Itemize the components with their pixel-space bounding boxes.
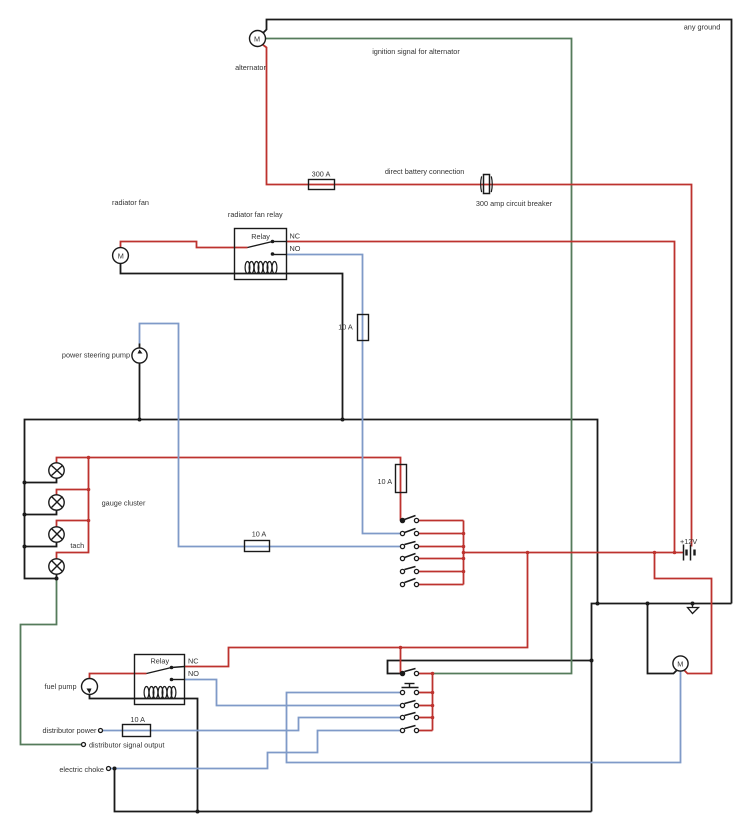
node: choke ground junction bbox=[113, 767, 117, 771]
svg-text:distributor power: distributor power bbox=[43, 726, 98, 735]
node: battery loop junction bbox=[653, 551, 657, 555]
node: tach lamp signal junction bbox=[55, 577, 59, 581]
node: ground trunk junction top bbox=[596, 602, 600, 606]
wire: fuel pump motor tail to prime push switch row 2 (blue) bbox=[287, 672, 681, 763]
node: lamp2 ground junction bbox=[23, 513, 27, 517]
wire: power steering pump return drop bbox=[139, 364, 141, 420]
node: lamp1 ground junction bbox=[23, 481, 27, 485]
node: relay1 coil return junction bbox=[341, 418, 345, 422]
svg-text:tach: tach bbox=[70, 541, 84, 550]
switch S1 bank1 row1 bbox=[400, 516, 418, 523]
wire: radiator fan motor return to relay coil and down to ground bus bbox=[121, 264, 343, 420]
svg-text:NC: NC bbox=[290, 232, 301, 241]
wire: tach signal (green) to distributor signal output terminal bbox=[21, 579, 82, 745]
svg-text:power steering pump: power steering pump bbox=[62, 351, 130, 360]
fuse F2 10 A (relay1 NO line) bbox=[358, 315, 369, 341]
wire: electric choke to lower bank row 5 (blue) bbox=[111, 731, 401, 769]
lamp L4 tach bbox=[49, 559, 64, 574]
wire: fuel pump feed into relay 2 (red) bbox=[90, 674, 147, 679]
node: relay1 NC rail junction bbox=[673, 551, 677, 555]
lamp L2 gauge cluster bbox=[49, 495, 64, 510]
fuse F3 10 A (main red to bank 1) bbox=[396, 465, 407, 493]
wire: lower bank switched bus (red) bbox=[432, 674, 434, 731]
switch S9 bank2 row3 bbox=[400, 701, 418, 708]
wire: ground bus bottom run y=811.3 to electric choke ground bbox=[115, 769, 592, 812]
wire: gauge lamp 3 ground jog bbox=[25, 543, 57, 547]
svg-text:gauge cluster: gauge cluster bbox=[102, 499, 146, 508]
wire: power steering pump top lead stub bbox=[139, 344, 141, 349]
wire: battery loop to fuel pump motor (red) bbox=[655, 553, 712, 674]
wire: fuel pump return through relay coil down to ground bus bbox=[90, 695, 198, 812]
svg-text:radiator fan: radiator fan bbox=[112, 198, 149, 207]
node: gauge bus lamp3 junction bbox=[87, 519, 91, 523]
wire: relay 1 NO to bank 1 row 2 via 10A fuse (blue) bbox=[287, 255, 401, 534]
wire: switched +12V main run to battery (red) bbox=[464, 552, 684, 554]
wire: ignition feed black run to lower switch bank row 1 bbox=[388, 661, 592, 674]
svg-text:ignition signal for alternator: ignition signal for alternator bbox=[372, 47, 460, 56]
svg-text:M: M bbox=[677, 659, 683, 668]
svg-text:distributor signal output: distributor signal output bbox=[89, 741, 164, 750]
terminal: electric choke bbox=[107, 767, 111, 771]
wire: power steering pump feed via 10A fuse to bank 1 row 3 (blue) bbox=[140, 324, 401, 547]
node: bank2 row1 input junction bbox=[401, 672, 405, 676]
node: gauge bus top junction bbox=[87, 456, 91, 460]
wire: lower bank row stubs (red) bbox=[419, 673, 433, 675]
node: bank2 bus row2 junction bbox=[431, 691, 435, 695]
svg-text:NC: NC bbox=[188, 657, 199, 666]
node: relay2 NC drop junction bbox=[526, 551, 530, 555]
pump P1 power steering pump bbox=[132, 348, 147, 363]
ground symbol bbox=[688, 604, 699, 614]
svg-text:Relay: Relay bbox=[251, 232, 270, 241]
wire: fuel pump motor ground drop from bus bbox=[648, 604, 677, 674]
node: bank2 bus row4 junction bbox=[431, 716, 435, 720]
terminal: distributor power bbox=[99, 729, 103, 733]
svg-text:10 A: 10 A bbox=[377, 477, 392, 486]
node: ignition feed tap bbox=[590, 659, 594, 663]
wire: radiator fan motor feed into relay 1 (red) bbox=[121, 242, 248, 248]
motor M2 radiator fan bbox=[113, 248, 129, 264]
wire: lamp 3 feed stub (red) bbox=[57, 521, 89, 527]
svg-text:alternator: alternator bbox=[235, 63, 266, 72]
relay K2 coil bbox=[144, 687, 176, 699]
svg-text:fuel pump: fuel pump bbox=[44, 682, 76, 691]
push switch S8 bank2 row2 (fuel pump prime) bbox=[400, 684, 418, 695]
wire: drop to fuel pump relay NC (red) bbox=[185, 553, 528, 667]
node: bank2 bus row3 junction bbox=[431, 704, 435, 708]
fuse F4 10 A (power steering line) bbox=[245, 541, 270, 552]
wire: relay 2 NO to lower bank row 3 (blue) bbox=[185, 680, 401, 706]
node: bank1 bus row3 junction bbox=[462, 545, 466, 549]
svg-text:300 amp circuit breaker: 300 amp circuit breaker bbox=[476, 199, 553, 208]
svg-text:+12V: +12V bbox=[680, 537, 697, 546]
fuse F1 300 A bbox=[309, 180, 335, 190]
motor M1 alternator bbox=[250, 31, 266, 47]
wire: bank 1 switched bus (red) bbox=[463, 521, 465, 585]
terminal: distributor signal output bbox=[82, 743, 86, 747]
node: bank1 bus row4 junction bbox=[462, 557, 466, 561]
wire: distributor power via 10A fuse to lower bank row 4 (blue) bbox=[103, 718, 401, 731]
wire: ground bus jog at y=603.3 and right run to any-ground rail bbox=[592, 604, 732, 812]
circuit breaker CB1 300 amp bbox=[481, 175, 493, 194]
node: bank2 row1 feed tap bbox=[399, 646, 403, 650]
switch S11 bank2 row5 bbox=[400, 726, 418, 733]
switch S3 bank1 row3 bbox=[400, 542, 418, 549]
wire: drop to lower bank row 1 (red) bbox=[400, 648, 402, 674]
motor M3 fuel pump motor bbox=[673, 656, 688, 671]
relay K1 radiator fan relay bbox=[235, 229, 287, 280]
svg-text:radiator fan relay: radiator fan relay bbox=[228, 210, 283, 219]
wire: gauge lamp 1 ground jog bbox=[25, 479, 57, 483]
wire: lamp 2 feed stub (red) bbox=[57, 490, 89, 495]
relay K1 coil bbox=[245, 262, 277, 274]
wire: alternator case to any-ground rail (top + right side) bbox=[263, 20, 732, 604]
switch S7 bank2 row1 bbox=[400, 669, 418, 676]
svg-text:NO: NO bbox=[290, 244, 301, 253]
wire: bank 1 row stubs (red) bbox=[419, 520, 464, 522]
wire: ignition signal for alternator (green) to lower bank bus bbox=[266, 39, 572, 674]
svg-text:10 A: 10 A bbox=[130, 715, 145, 724]
battery BT1 +12V bbox=[684, 545, 695, 561]
wire: alternator B+ through 300A fuse and breaker to battery (red) bbox=[263, 45, 692, 547]
wire: tach lamp bottom stub bbox=[56, 575, 58, 579]
wire: gauge cluster feed and main red run to 10A fuse and bank 1 (red) bbox=[57, 458, 401, 521]
node: fuel pump motor ground tap bbox=[646, 602, 650, 606]
relay K2 fuel pump relay bbox=[135, 655, 185, 705]
node: pump return junction bbox=[138, 418, 142, 422]
node: gauge bus lamp2 junction bbox=[87, 488, 91, 492]
node: lamp3 ground junction bbox=[23, 545, 27, 549]
svg-text:electric choke: electric choke bbox=[59, 765, 104, 774]
switch S6 bank1 row6 bbox=[400, 579, 418, 587]
svg-text:300 A: 300 A bbox=[312, 170, 331, 179]
svg-text:10 A: 10 A bbox=[252, 529, 267, 538]
wire: ground bus horizontal y=419.5 with left rail down to lamp row bbox=[25, 420, 598, 604]
pump P2 fuel pump bbox=[82, 679, 98, 695]
svg-text:Relay: Relay bbox=[150, 656, 169, 665]
lamp L1 gauge cluster bbox=[49, 463, 64, 478]
wire: gauge lamp 2 ground jog bbox=[25, 511, 57, 515]
svg-text:M: M bbox=[254, 34, 260, 43]
svg-text:direct battery connection: direct battery connection bbox=[385, 167, 465, 176]
switch S2 bank1 row2 bbox=[400, 529, 418, 536]
node: bank1 bus main tap bbox=[462, 551, 466, 555]
switch S10 bank2 row4 bbox=[400, 713, 418, 720]
switch S5 bank1 row5 bbox=[400, 567, 418, 574]
node: relay2 coil ground junction bbox=[196, 810, 200, 814]
lamp L3 gauge cluster bbox=[49, 527, 64, 542]
node: bank1 bus row2 junction bbox=[462, 532, 466, 536]
svg-text:NO: NO bbox=[188, 669, 199, 678]
svg-text:10 A: 10 A bbox=[338, 323, 353, 332]
node: bank1 row1 input junction bbox=[401, 519, 405, 523]
node: bank1 bus row5 junction bbox=[462, 570, 466, 574]
svg-text:any ground: any ground bbox=[684, 23, 721, 32]
node: ground symbol tap bbox=[691, 602, 695, 606]
wire: relay 1 NC contact to +12V rail (red) bbox=[287, 242, 675, 553]
switch S4 bank1 row4 bbox=[400, 554, 418, 561]
svg-text:M: M bbox=[118, 251, 124, 260]
node: bank2 bus row1 junction bbox=[431, 672, 435, 676]
fuse F5 10 A (distributor power) bbox=[123, 725, 151, 737]
wire: gauge cluster red bus bbox=[57, 458, 89, 559]
